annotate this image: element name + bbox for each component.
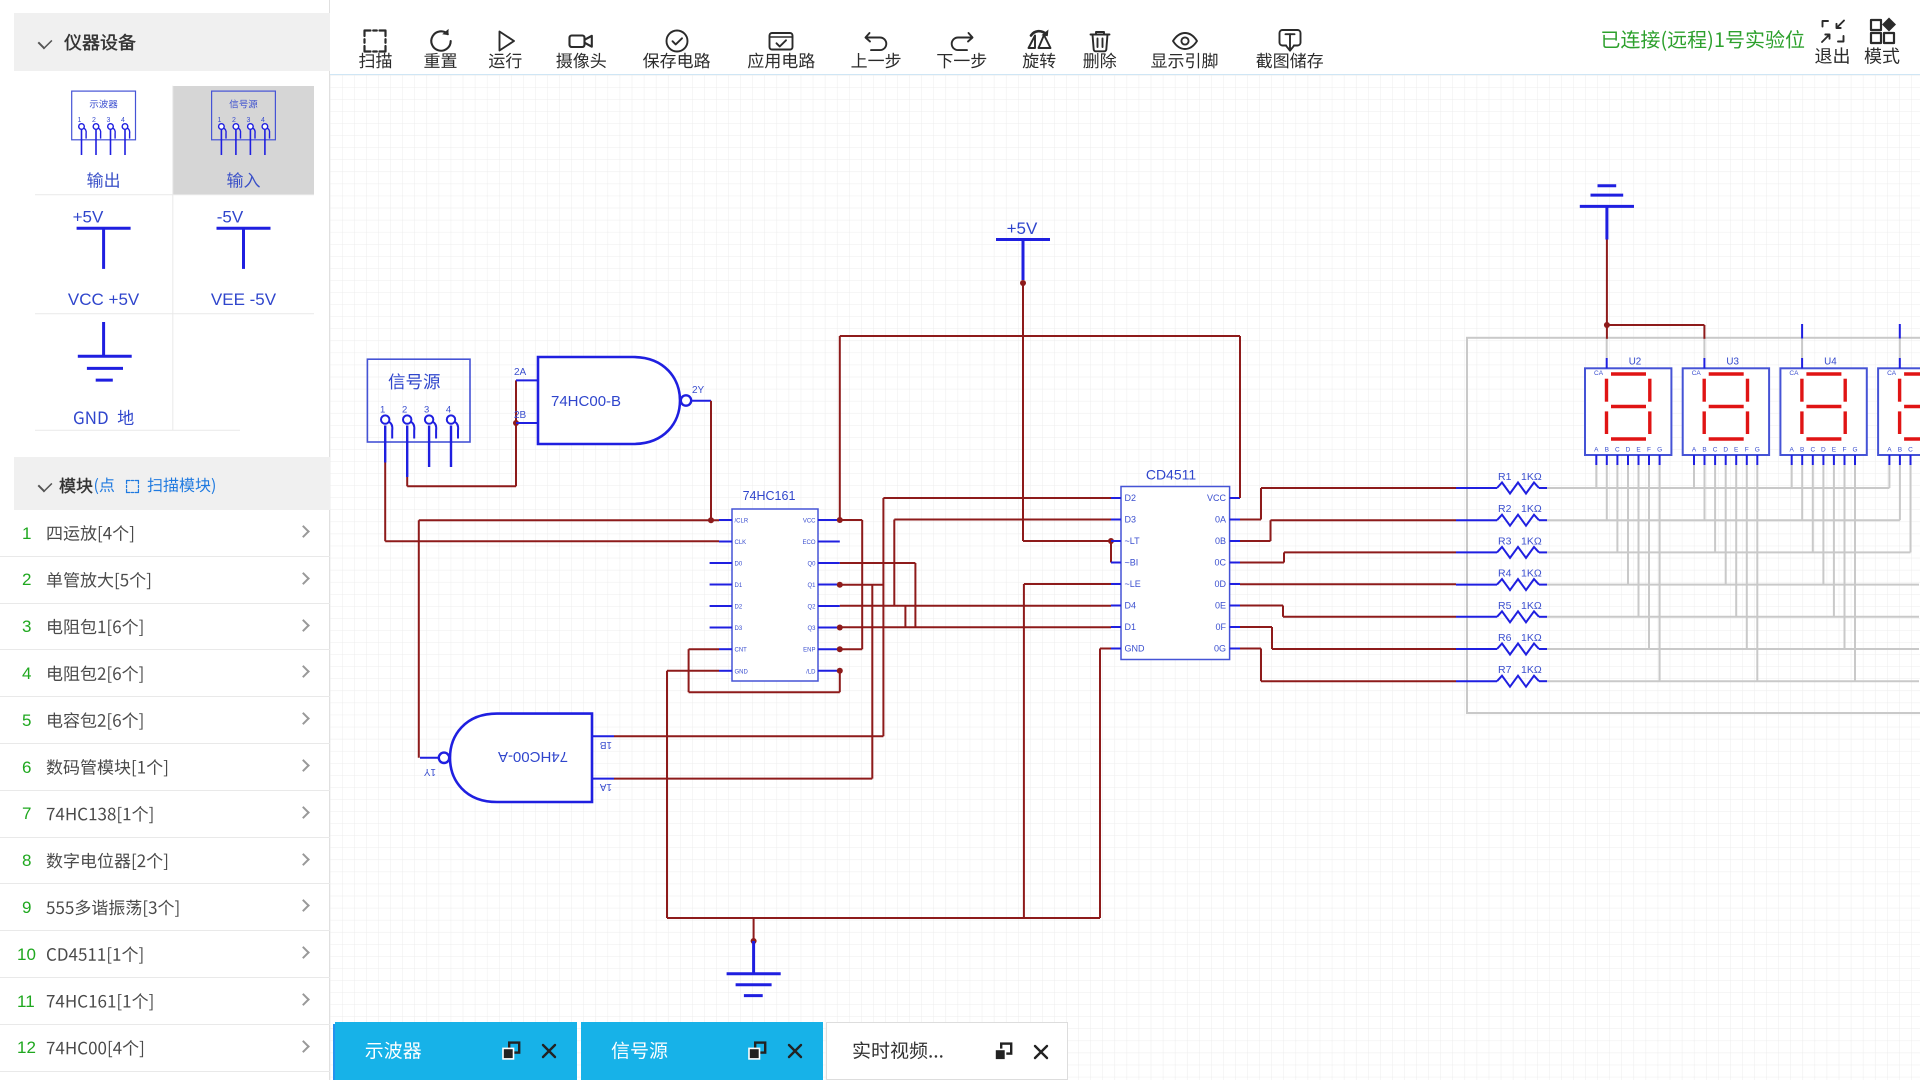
svg-text:2A: 2A — [514, 367, 527, 378]
svg-text:CA: CA — [1887, 370, 1897, 377]
svg-text:+5V: +5V — [73, 208, 104, 227]
svg-text:R5: R5 — [1498, 600, 1512, 612]
svg-text:2: 2 — [402, 405, 407, 416]
svg-text:0C: 0C — [1214, 558, 1226, 568]
svg-text:ENP: ENP — [803, 648, 815, 654]
svg-text:~LE: ~LE — [1125, 579, 1141, 589]
svg-text:F: F — [1745, 447, 1749, 454]
svg-text:CNT: CNT — [735, 648, 748, 654]
svg-text:3: 3 — [424, 405, 429, 416]
svg-text:R3: R3 — [1498, 535, 1512, 547]
svg-text:G: G — [1755, 447, 1760, 454]
svg-text:0E: 0E — [1215, 601, 1226, 611]
svg-text:A: A — [1594, 447, 1599, 454]
svg-text:VCC: VCC — [803, 519, 816, 525]
svg-text:Q1: Q1 — [807, 583, 816, 589]
svg-text:D3: D3 — [735, 626, 743, 632]
svg-text:Q3: Q3 — [807, 626, 816, 632]
svg-text:3: 3 — [246, 117, 250, 124]
svg-text:CA: CA — [1594, 370, 1604, 377]
svg-text:C: C — [1713, 447, 1718, 454]
svg-text:A: A — [1790, 447, 1795, 454]
svg-text:2B: 2B — [514, 410, 527, 421]
svg-text:74HC00-A: 74HC00-A — [498, 748, 568, 765]
svg-text:+5V: +5V — [1007, 219, 1038, 238]
svg-text:1: 1 — [380, 405, 385, 416]
svg-text:4: 4 — [261, 117, 265, 124]
svg-text:74HC00-B: 74HC00-B — [551, 393, 621, 410]
svg-text:D: D — [1626, 447, 1631, 454]
svg-text:1KΩ: 1KΩ — [1521, 503, 1542, 515]
svg-text:D2: D2 — [1125, 493, 1137, 503]
svg-text:1A: 1A — [599, 781, 612, 792]
svg-text:Q0: Q0 — [807, 562, 816, 568]
svg-text:CLK: CLK — [735, 540, 747, 546]
svg-text:F: F — [1843, 447, 1847, 454]
svg-text:D4: D4 — [1125, 601, 1137, 611]
svg-text:2: 2 — [232, 117, 236, 124]
svg-text:R6: R6 — [1498, 632, 1512, 644]
svg-text:VEE -5V: VEE -5V — [211, 290, 277, 309]
svg-text:B: B — [1800, 447, 1804, 454]
svg-text:1KΩ: 1KΩ — [1521, 664, 1542, 676]
svg-text:0F: 0F — [1215, 622, 1226, 632]
svg-text:R1: R1 — [1498, 471, 1512, 483]
svg-text:C: C — [1908, 447, 1913, 454]
svg-text:1: 1 — [217, 117, 221, 124]
svg-text:VCC +5V: VCC +5V — [68, 290, 140, 309]
svg-text:C: C — [1810, 447, 1815, 454]
svg-text:3: 3 — [107, 117, 111, 124]
svg-text:74HC161: 74HC161 — [743, 489, 796, 503]
svg-text:Q2: Q2 — [807, 605, 816, 611]
svg-text:GND: GND — [1125, 644, 1146, 654]
svg-text:GND: GND — [735, 669, 749, 675]
svg-text:CA: CA — [1692, 370, 1702, 377]
svg-text:1KΩ: 1KΩ — [1521, 632, 1542, 644]
svg-text:D2: D2 — [735, 605, 743, 611]
svg-text:1Y: 1Y — [423, 766, 436, 777]
svg-text:/LD: /LD — [806, 669, 816, 675]
svg-text:0A: 0A — [1215, 515, 1226, 525]
svg-text:U2: U2 — [1629, 357, 1642, 368]
svg-text:G: G — [1657, 447, 1662, 454]
svg-text:1B: 1B — [599, 739, 612, 750]
svg-text:D: D — [1821, 447, 1826, 454]
svg-text:D3: D3 — [1125, 515, 1137, 525]
svg-text:CA: CA — [1789, 370, 1799, 377]
svg-text:1KΩ: 1KΩ — [1521, 535, 1542, 547]
svg-text:/CLR: /CLR — [735, 519, 749, 525]
svg-text:2Y: 2Y — [692, 385, 705, 396]
svg-text:A: A — [1887, 447, 1892, 454]
svg-text:~LT: ~LT — [1125, 536, 1141, 546]
svg-text:1KΩ: 1KΩ — [1521, 471, 1542, 483]
svg-text:D1: D1 — [735, 583, 743, 589]
svg-text:CD4511: CD4511 — [1146, 467, 1197, 483]
svg-text:E: E — [1832, 447, 1837, 454]
svg-text:1KΩ: 1KΩ — [1521, 600, 1542, 612]
svg-text:ECO: ECO — [802, 540, 815, 546]
svg-text:4: 4 — [446, 405, 451, 416]
svg-text:D1: D1 — [1125, 622, 1137, 632]
svg-text:VCC: VCC — [1207, 493, 1227, 503]
svg-text:B: B — [1702, 447, 1706, 454]
svg-text:R7: R7 — [1498, 664, 1512, 676]
svg-text:B: B — [1605, 447, 1609, 454]
svg-text:U4: U4 — [1824, 357, 1837, 368]
svg-text:R4: R4 — [1498, 568, 1512, 580]
svg-text:4: 4 — [121, 117, 125, 124]
svg-text:D: D — [1723, 447, 1728, 454]
svg-text:0G: 0G — [1214, 644, 1226, 654]
svg-text:U3: U3 — [1726, 357, 1739, 368]
svg-text:2: 2 — [92, 117, 96, 124]
svg-text:B: B — [1898, 447, 1902, 454]
svg-text:1KΩ: 1KΩ — [1521, 568, 1542, 580]
svg-text:~BI: ~BI — [1125, 558, 1139, 568]
svg-text:0D: 0D — [1214, 579, 1226, 589]
svg-text:E: E — [1636, 447, 1641, 454]
svg-text:1: 1 — [78, 117, 82, 124]
svg-text:E: E — [1734, 447, 1739, 454]
svg-text:A: A — [1692, 447, 1697, 454]
svg-text:C: C — [1615, 447, 1620, 454]
svg-text:D0: D0 — [735, 562, 743, 568]
svg-text:-5V: -5V — [217, 208, 244, 227]
svg-text:R2: R2 — [1498, 503, 1512, 515]
svg-text:G: G — [1852, 447, 1857, 454]
svg-text:0B: 0B — [1215, 536, 1226, 546]
svg-text:F: F — [1647, 447, 1651, 454]
